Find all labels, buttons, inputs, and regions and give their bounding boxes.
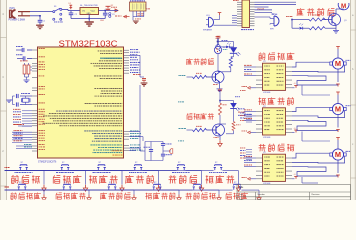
svg-text:S?: S? xyxy=(234,182,236,184)
svg-text:+5: +5 xyxy=(294,83,296,85)
svg-text:S?: S? xyxy=(215,162,217,164)
svg-text:+5: +5 xyxy=(294,128,296,130)
svg-text:C3: C3 xyxy=(112,14,114,16)
svg-text:Q1: Q1 xyxy=(344,20,347,22)
svg-text:PW1: PW1 xyxy=(10,7,16,10)
svg-text:S?: S? xyxy=(62,162,64,164)
svg-text:Vout: Vout xyxy=(91,10,96,13)
svg-text:S?: S? xyxy=(19,182,21,184)
svg-text:S?: S? xyxy=(64,182,66,184)
svg-text:S?: S? xyxy=(178,162,180,164)
svg-text:D1: D1 xyxy=(69,3,71,5)
svg-text:S?: S? xyxy=(135,162,137,164)
svg-text:+5: +5 xyxy=(294,174,296,176)
svg-text:D2: D2 xyxy=(111,5,113,7)
svg-text:S?: S? xyxy=(194,182,196,184)
svg-text:GND: GND xyxy=(100,20,105,22)
svg-text:Revision: Revision xyxy=(312,194,321,196)
svg-text:L9110S: L9110S xyxy=(263,183,271,185)
svg-text:S?: S? xyxy=(99,162,101,164)
svg-text:SPEAKER: SPEAKER xyxy=(203,29,213,32)
svg-text:L9110S: L9110S xyxy=(263,137,271,139)
svg-text:Number: Number xyxy=(258,193,266,196)
svg-text:SL_78L05/SOT89: SL_78L05/SOT89 xyxy=(80,5,98,7)
svg-text:S?: S? xyxy=(154,182,156,184)
svg-text:Title: Title xyxy=(239,186,244,189)
svg-text:M: M xyxy=(335,105,341,114)
svg-text:M: M xyxy=(335,150,341,159)
svg-text:POWER-2.5MM: POWER-2.5MM xyxy=(9,20,26,22)
svg-text:1N4148: 1N4148 xyxy=(257,9,265,11)
svg-text:S?: S? xyxy=(109,182,111,184)
svg-text:L9110S: L9110S xyxy=(263,92,271,94)
svg-text:S?: S? xyxy=(21,162,23,164)
svg-text:STM32F103C8T6: STM32F103C8T6 xyxy=(38,161,57,163)
svg-text:M: M xyxy=(335,59,341,68)
